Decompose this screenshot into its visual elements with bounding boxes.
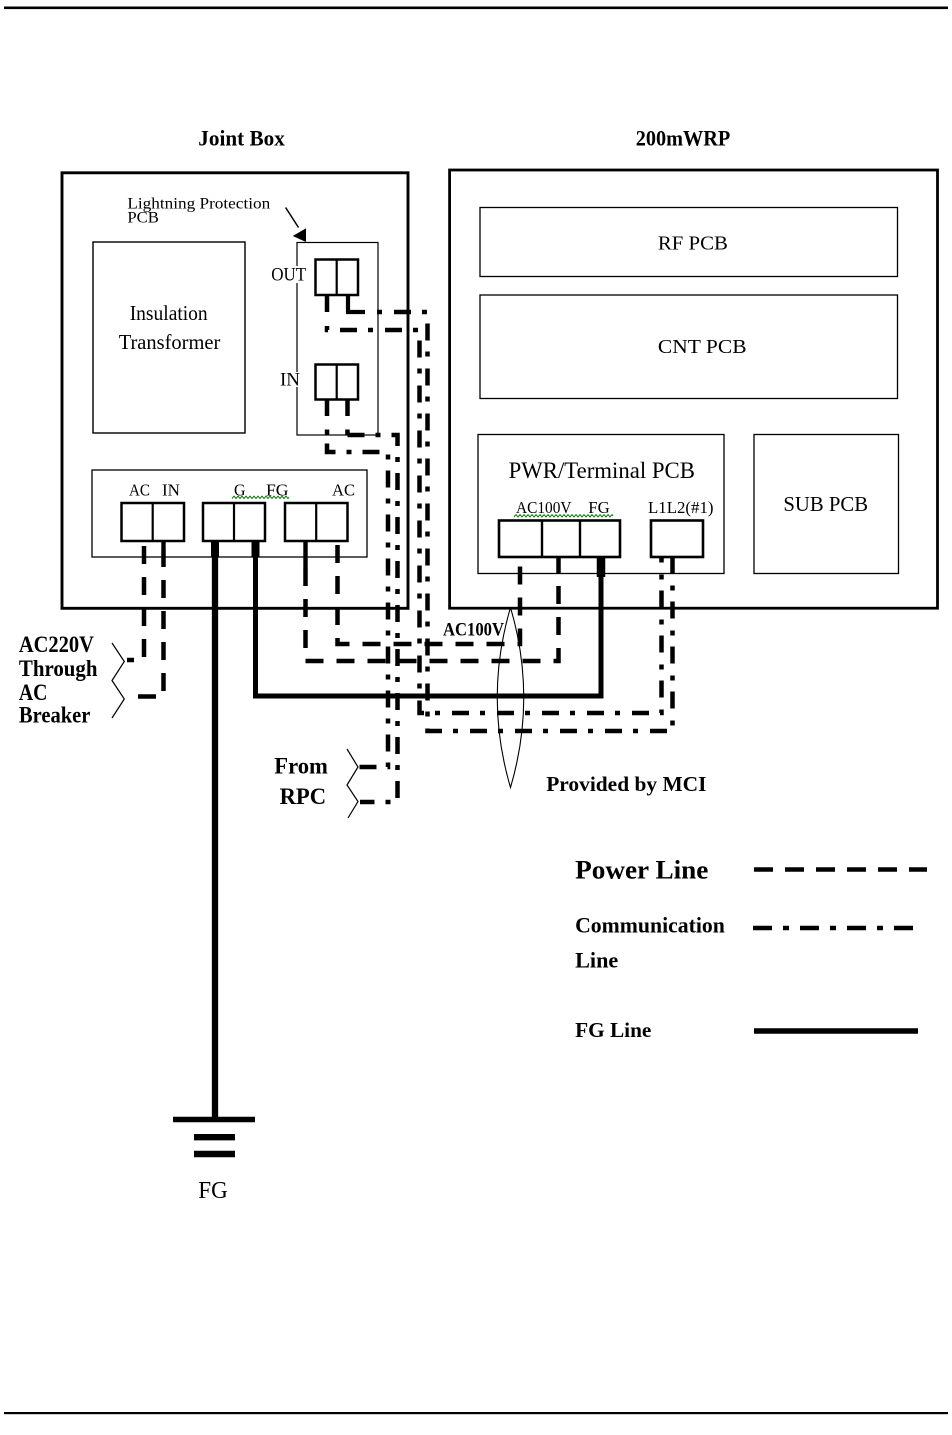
svg-text:Insulation: Insulation — [130, 301, 208, 325]
svg-text:From: From — [274, 754, 328, 779]
L1L2 terminal connector — [651, 521, 703, 558]
communication line A: OUT left pin to L1L2 left pin — [327, 326, 662, 713]
legend communication line sample — [753, 926, 916, 930]
svg-text:Transformer: Transformer — [119, 330, 221, 354]
top page rule — [4, 7, 948, 10]
IN connector — [316, 365, 359, 400]
arrow to Lightning Protection PCB — [286, 208, 306, 243]
label IN — [277, 370, 303, 391]
SUB PCB box — [754, 435, 899, 574]
svg-text:AC: AC — [19, 680, 48, 705]
OUT left pin — [325, 295, 330, 312]
PWR/Terminal PCB box — [478, 435, 724, 574]
spellcheck squiggle under FG (terminal) — [590, 515, 613, 517]
svg-text:RF PCB: RF PCB — [658, 233, 728, 255]
AC IN connector — [122, 503, 185, 541]
power line P4: Joint AC-IN pin2 to AC220V brace — [130, 549, 164, 697]
svg-text:AC220V: AC220V — [19, 632, 94, 657]
OUT connector — [316, 260, 359, 296]
svg-text:RPC: RPC — [280, 784, 327, 809]
FG line F1: Joint G pin to earth ground — [212, 541, 218, 1117]
svg-text:Joint Box: Joint Box — [198, 126, 284, 151]
power line P2: Joint AC pin1 to WRP AC100V pin2 — [306, 557, 559, 661]
svg-text:AC: AC — [332, 481, 355, 500]
IN left pin — [325, 400, 330, 417]
AC-IN pin2 solid stub — [161, 541, 165, 549]
svg-text:IN: IN — [162, 481, 180, 500]
legend FG line sample — [754, 1028, 918, 1033]
svg-text:PWR/Terminal PCB: PWR/Terminal PCB — [509, 458, 695, 483]
svg-text:OUT: OUT — [271, 265, 306, 286]
power line P3: Joint AC-IN pin1 to AC220V brace — [127, 546, 144, 660]
communication line B: OUT right pin to L1L2 right pin — [377, 312, 673, 731]
svg-text:Line: Line — [575, 948, 618, 973]
FG line F2: Joint FG pin to WRP AC100V pin3 — [256, 541, 602, 696]
svg-text:CNT PCB: CNT PCB — [658, 336, 747, 358]
AC connector — [285, 503, 348, 541]
svg-text:FG: FG — [588, 498, 610, 517]
spellcheck squiggle under AC100V — [514, 515, 591, 517]
svg-text:Power Line: Power Line — [575, 855, 709, 885]
Lightning Protection PCB box — [297, 243, 378, 436]
svg-text:FG Line: FG Line — [575, 1018, 651, 1042]
svg-text:Breaker: Breaker — [19, 703, 91, 728]
Joint Box enclosure — [62, 173, 408, 609]
AC100V pin3 stub — [597, 557, 606, 577]
IN right pin — [345, 400, 350, 417]
AC pin1 solid stub — [303, 541, 307, 568]
Insulation Transformer box — [93, 242, 245, 433]
svg-text:G: G — [234, 481, 246, 500]
svg-text:Through: Through — [19, 656, 98, 681]
From RPC brace — [347, 749, 358, 818]
svg-text:L1L2(#1): L1L2(#1) — [648, 498, 714, 517]
svg-text:200mWRP: 200mWRP — [636, 126, 731, 151]
200mWRP enclosure — [450, 170, 938, 608]
G/FG connector — [203, 503, 265, 541]
svg-text:IN: IN — [280, 370, 300, 391]
AC220V brace — [112, 643, 124, 718]
earth ground symbol — [173, 1117, 255, 1122]
cable bundle ellipse (AC100V loop) — [497, 608, 524, 788]
svg-text:FG: FG — [198, 1178, 228, 1204]
power line P1: Joint AC pin2 to WRP AC100V pin1 — [338, 545, 521, 644]
svg-text:AC100V: AC100V — [443, 620, 504, 641]
spellcheck squiggle under G FG — [232, 496, 289, 498]
svg-text:SUB PCB: SUB PCB — [783, 492, 868, 516]
AC100V terminal connector — [499, 521, 620, 558]
bottom page rule — [4, 1412, 948, 1414]
legend power line sample — [754, 867, 927, 871]
label OUT — [268, 265, 309, 286]
Joint Box terminal strip box — [92, 470, 367, 557]
FG pin stub — [252, 541, 260, 557]
svg-text:Provided by MCI: Provided by MCI — [546, 772, 706, 796]
CNT PCB box — [480, 295, 898, 399]
svg-text:PCB: PCB — [127, 210, 159, 227]
communication line D: IN right pin to RPC brace — [345, 430, 350, 436]
OUT right pin elbow — [346, 295, 365, 312]
G pin stub — [211, 541, 219, 557]
svg-text:AC: AC — [129, 481, 150, 500]
svg-text:Communication: Communication — [575, 913, 725, 938]
communication line C: IN left pin to From brace — [325, 430, 330, 436]
RF PCB box — [480, 208, 898, 277]
